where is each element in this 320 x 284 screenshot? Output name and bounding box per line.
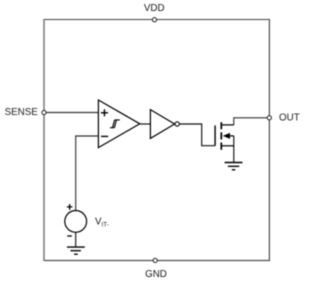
voltage source - sign xyxy=(67,235,72,237)
ground under voltage source xyxy=(67,247,85,254)
transistor Q1 source lead xyxy=(222,145,234,147)
transistor Q1 gate bar xyxy=(214,125,216,145)
wire inverter output to MOSFET gate xyxy=(180,124,215,146)
transistor Q1 channel segments xyxy=(220,122,222,150)
svg-text:SENSE: SENSE xyxy=(5,107,39,118)
pin GND xyxy=(153,258,157,262)
comparator U1 xyxy=(98,100,139,148)
device boundary top edge xyxy=(43,19,270,21)
comparator hysteresis symbol xyxy=(110,120,120,128)
svg-text:VDD: VDD xyxy=(144,3,165,14)
ground under MOSFET xyxy=(225,163,243,170)
device boundary left edge xyxy=(43,19,45,261)
comparator - input sign xyxy=(101,135,108,137)
wire comparator output to inverter input xyxy=(140,123,151,125)
wire MOSFET drain to OUT xyxy=(234,118,269,125)
svg-text:OUT: OUT xyxy=(279,112,300,123)
wire Vref to comparator - input xyxy=(76,136,99,211)
svg-text:VIT-: VIT- xyxy=(95,217,109,229)
inverter U2 xyxy=(150,110,174,139)
voltage source VIT- xyxy=(65,211,87,233)
transistor Q1 body lead xyxy=(228,135,234,137)
inverter output bubble xyxy=(175,122,179,126)
transistor Q1 drain lead xyxy=(222,124,234,126)
pin OUT xyxy=(267,116,271,120)
svg-text:GND: GND xyxy=(145,269,167,280)
pin SENSE xyxy=(42,110,46,114)
wire MOSFET source/body to ground xyxy=(233,136,235,163)
device boundary bottom edge xyxy=(43,260,270,262)
device boundary right edge xyxy=(268,19,270,261)
comparator + input sign xyxy=(101,109,108,116)
transistor Q1 body arrow xyxy=(223,133,230,139)
pin VDD xyxy=(152,18,156,22)
wire voltage source to ground xyxy=(75,232,77,247)
voltage source + sign xyxy=(67,204,73,210)
wire SENSE to comparator + input xyxy=(44,112,98,114)
